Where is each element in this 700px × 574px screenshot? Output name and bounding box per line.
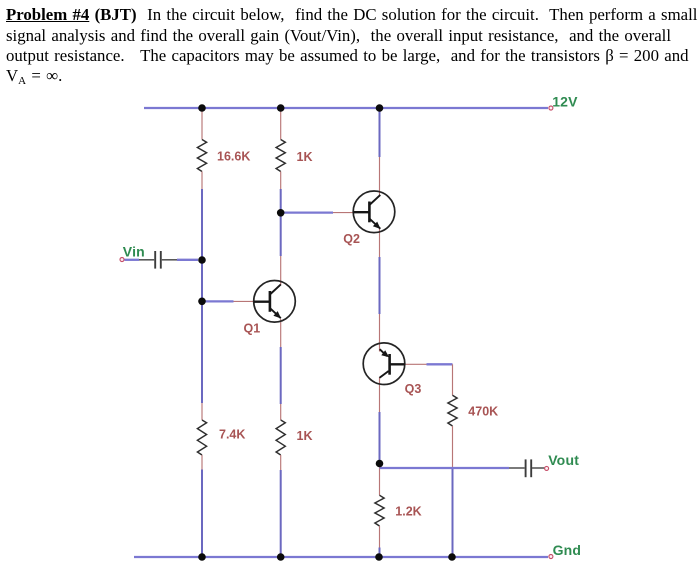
svg-text:1.2K: 1.2K (395, 505, 421, 519)
svg-text:12V: 12V (552, 93, 578, 109)
svg-text:Q3: Q3 (405, 382, 422, 396)
svg-text:1K: 1K (297, 429, 313, 443)
svg-text:Gnd: Gnd (553, 542, 582, 558)
svg-text:Vout: Vout (548, 452, 579, 468)
svg-text:1K: 1K (297, 150, 313, 164)
svg-text:Vin: Vin (123, 244, 145, 260)
svg-text:7.4K: 7.4K (219, 428, 245, 442)
svg-text:470K: 470K (468, 405, 498, 419)
svg-text:Q1: Q1 (244, 321, 261, 335)
svg-text:16.6K: 16.6K (217, 150, 250, 164)
svg-text:Q2: Q2 (343, 232, 360, 246)
